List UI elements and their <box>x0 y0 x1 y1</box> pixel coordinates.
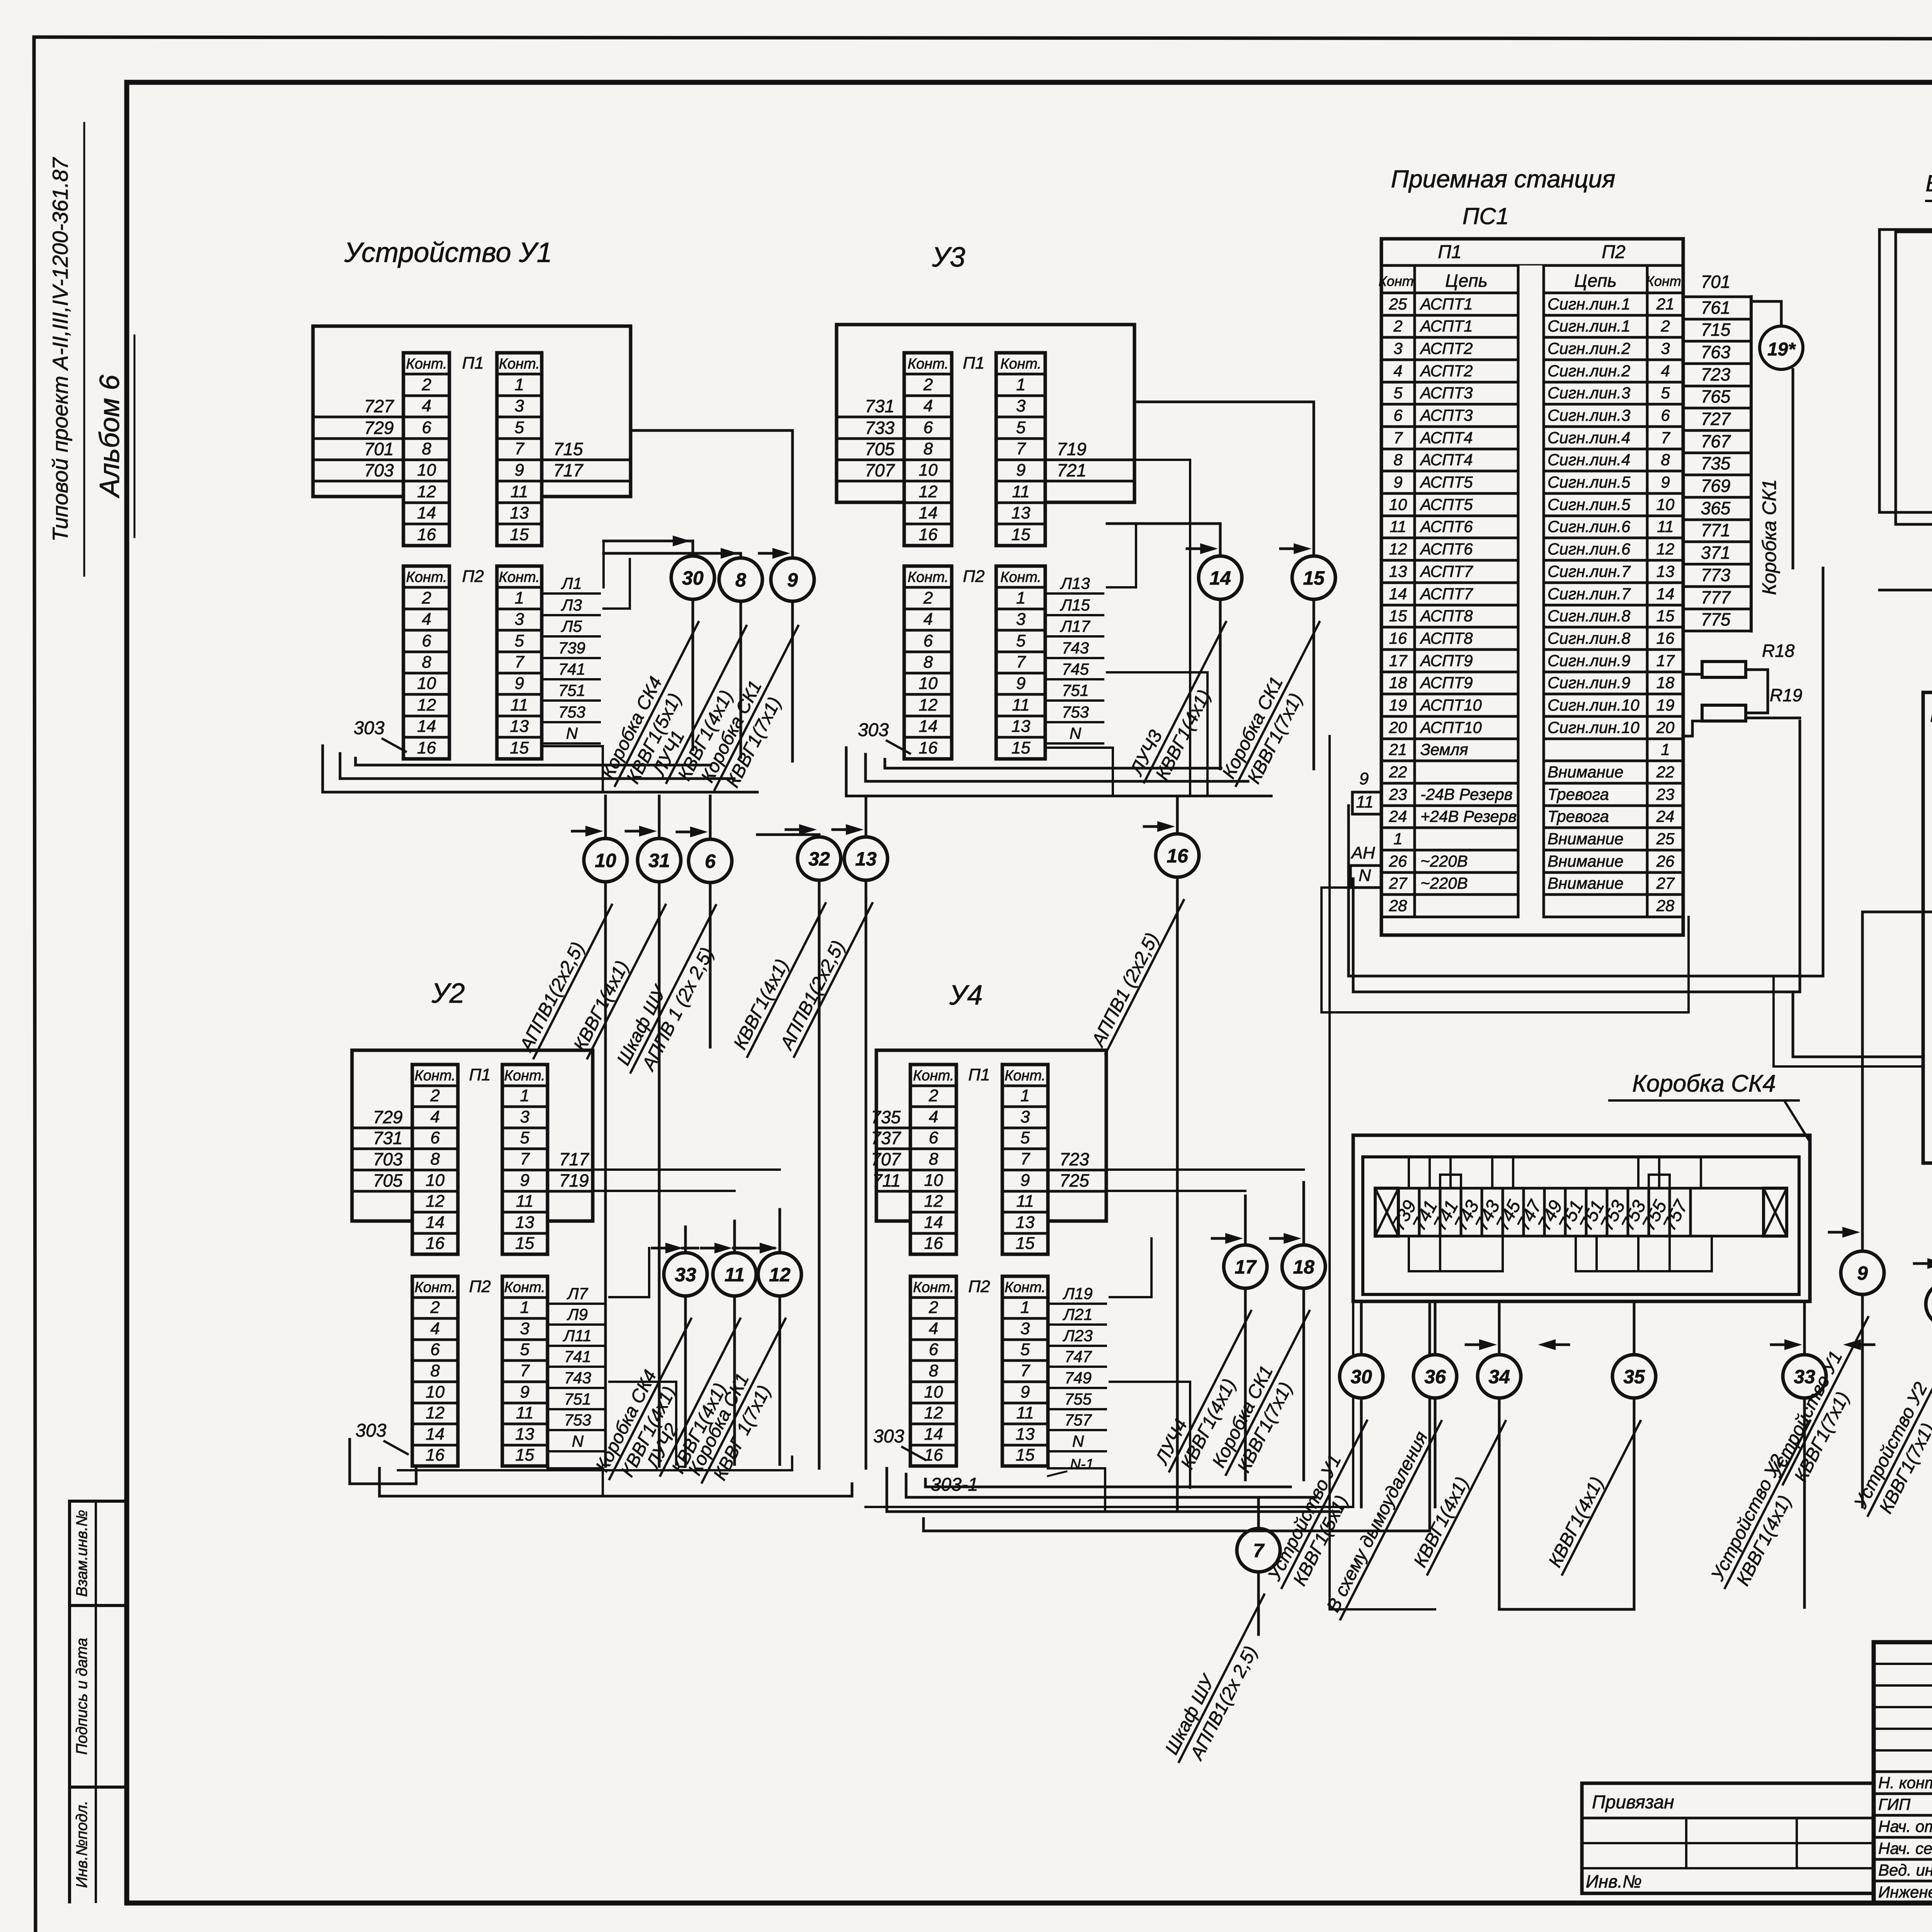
svg-text:9: 9 <box>787 569 798 591</box>
cable node 14 at U3 <box>1199 556 1242 599</box>
svg-text:6: 6 <box>923 418 933 437</box>
svg-text:14: 14 <box>924 1213 943 1232</box>
direction arrow at node 10 <box>572 830 592 833</box>
svg-text:Сигн.лин.3: Сигн.лин.3 <box>1548 406 1630 424</box>
svg-text:16: 16 <box>919 738 938 757</box>
svg-text:Инв.№: Инв.№ <box>1586 1871 1642 1891</box>
svg-text:5: 5 <box>515 418 524 437</box>
cable node 30 at U1 <box>671 556 714 599</box>
svg-text:Конт.: Конт. <box>908 356 949 372</box>
svg-text:6: 6 <box>430 1128 440 1147</box>
svg-text:АСПТ1: АСПТ1 <box>1419 295 1473 313</box>
svg-text:N: N <box>1359 866 1371 885</box>
wire long U3 to node 15 <box>1134 402 1314 769</box>
svg-text:1: 1 <box>1393 830 1402 848</box>
svg-text:371: 371 <box>1701 543 1731 563</box>
svg-text:731: 731 <box>373 1128 403 1148</box>
svg-text:4: 4 <box>1393 362 1402 380</box>
svg-text:751: 751 <box>558 681 585 699</box>
svg-text:8: 8 <box>735 569 746 591</box>
svg-text:~220В: ~220В <box>1420 852 1468 870</box>
svg-text:14: 14 <box>1656 585 1675 603</box>
svg-text:Конт.: Конт. <box>908 569 949 585</box>
svg-text:Конт.: Конт. <box>406 356 447 372</box>
resistor R18 <box>1702 662 1746 677</box>
wire cable run 13 <box>865 796 867 1468</box>
svg-text:7: 7 <box>520 1361 530 1380</box>
svg-text:6: 6 <box>929 1340 939 1359</box>
svg-text:12: 12 <box>417 482 436 501</box>
svg-text:14: 14 <box>1389 585 1407 603</box>
svg-text:Конт.: Конт. <box>406 569 447 585</box>
svg-text:Л23: Л23 <box>1062 1327 1093 1345</box>
wire bus left of SK1 upper <box>1862 911 1932 913</box>
svg-text:У3: У3 <box>932 242 965 273</box>
svg-text:7: 7 <box>1393 429 1403 447</box>
svg-text:Коробка СК4: Коробка СК4 <box>1632 1070 1776 1097</box>
wire U2 p2 stub links <box>609 1248 649 1297</box>
svg-text:П1: П1 <box>1438 242 1461 262</box>
svg-text:727: 727 <box>1701 409 1731 429</box>
svg-text:6: 6 <box>923 631 933 650</box>
svg-text:Л3: Л3 <box>561 596 582 614</box>
svg-text:Л11: Л11 <box>563 1327 592 1345</box>
svg-text:7: 7 <box>1020 1150 1031 1168</box>
svg-text:АСПТ4: АСПТ4 <box>1419 451 1473 469</box>
svg-text:5: 5 <box>1016 631 1026 650</box>
svg-text:АСПТ10: АСПТ10 <box>1419 718 1482 736</box>
cable node 34 at SK4 <box>1478 1355 1521 1398</box>
svg-text:3: 3 <box>515 396 524 415</box>
wire U3 p2 stub links <box>1107 524 1136 587</box>
svg-text:755: 755 <box>1065 1390 1092 1408</box>
svg-text:R19: R19 <box>1770 685 1802 705</box>
cable label Коробка СК4 at node 30 <box>596 612 719 796</box>
svg-text:1: 1 <box>1020 1086 1030 1105</box>
svg-text:Конт.: Конт. <box>415 1068 456 1084</box>
svg-text:9: 9 <box>1016 674 1026 693</box>
svg-text:19: 19 <box>1389 696 1407 714</box>
svg-text:Типовой проект А-II,III,IV-120: Типовой проект А-II,III,IV-1200-361.87 <box>48 157 72 542</box>
svg-text:Тревога: Тревога <box>1548 807 1609 825</box>
title block <box>1874 1642 1932 1905</box>
wire SK4 to node 34 <box>1498 1301 1501 1607</box>
svg-text:Сигн.лин.2: Сигн.лин.2 <box>1548 362 1630 380</box>
svg-text:Привязан: Привязан <box>1592 1792 1674 1813</box>
svg-text:Конт.: Конт. <box>1000 569 1041 585</box>
svg-text:АСПТ4: АСПТ4 <box>1419 429 1473 447</box>
svg-text:П2: П2 <box>968 1277 990 1296</box>
wire bus PS1 to SK1 <box>1793 992 1923 1057</box>
direction arrow at node 6 <box>677 831 696 833</box>
cable label Шкаф ШУ at node 7 <box>1160 1585 1285 1772</box>
svg-text:707: 707 <box>865 460 895 480</box>
svg-text:7: 7 <box>1016 439 1026 458</box>
svg-text:Конт.: Конт. <box>913 1068 954 1084</box>
svg-text:16: 16 <box>1656 629 1675 647</box>
wire to node 11 <box>733 1221 736 1464</box>
svg-text:19*: 19* <box>1767 339 1796 360</box>
svg-text:16: 16 <box>417 525 436 544</box>
svg-text:10: 10 <box>919 674 938 693</box>
svg-text:Сигн.лин.8: Сигн.лин.8 <box>1548 629 1631 647</box>
svg-text:13: 13 <box>515 1425 534 1444</box>
cable label at right node 9 <box>1764 1307 1889 1495</box>
svg-text:4: 4 <box>430 1319 440 1338</box>
svg-text:АСПТ6: АСПТ6 <box>1419 540 1473 558</box>
svg-text:17: 17 <box>1389 651 1408 670</box>
svg-text:5: 5 <box>1016 418 1026 437</box>
svg-text:Сигн.лин.5: Сигн.лин.5 <box>1548 495 1631 514</box>
cable label at SK4 node 33 <box>1706 1411 1831 1599</box>
svg-text:11: 11 <box>1016 1192 1034 1211</box>
svg-text:13: 13 <box>510 717 529 736</box>
svg-text:Л9: Л9 <box>566 1305 588 1323</box>
svg-text:11: 11 <box>1657 517 1674 536</box>
svg-text:П1: П1 <box>462 354 484 372</box>
svg-text:6: 6 <box>1393 406 1403 424</box>
svg-text:3: 3 <box>1020 1107 1030 1126</box>
svg-text:Устройство У1: Устройство У1 <box>344 237 552 268</box>
svg-text:3: 3 <box>520 1107 530 1126</box>
svg-text:15: 15 <box>1389 607 1407 625</box>
cable label ЛУЧ3 at node 14 <box>1125 612 1247 793</box>
svg-text:767: 767 <box>1701 431 1731 451</box>
svg-text:20: 20 <box>1656 718 1675 736</box>
svg-text:8: 8 <box>929 1361 939 1380</box>
svg-text:13: 13 <box>1016 1213 1035 1232</box>
svg-text:9: 9 <box>1393 473 1402 491</box>
wire R18-R19 loop <box>1683 673 1702 676</box>
wire PS1 26-27 to left <box>1321 888 1689 1012</box>
svg-text:717: 717 <box>553 460 583 480</box>
svg-text:У2: У2 <box>431 978 465 1009</box>
cable label at SK4 node 30 <box>1262 1411 1388 1599</box>
svg-text:Л21: Л21 <box>1062 1305 1093 1323</box>
wire long bus 303-1 <box>923 1301 1430 1531</box>
svg-text:Взам.инв.№: Взам.инв.№ <box>73 1510 90 1597</box>
svg-text:751: 751 <box>564 1390 591 1408</box>
wire to node 17 <box>1244 1196 1247 1480</box>
wire feeder to node 32 <box>757 833 819 836</box>
direction arrows at U3 nodes <box>1187 548 1206 550</box>
svg-text:16: 16 <box>924 1234 943 1253</box>
svg-text:N-1: N-1 <box>1070 1456 1094 1473</box>
svg-text:11: 11 <box>1356 793 1374 811</box>
cable label Коробка СК1 at node 15 <box>1217 612 1340 796</box>
svg-text:Тревога: Тревога <box>1548 785 1609 803</box>
wire cable run 16 <box>1176 796 1179 1512</box>
svg-text:Сигн.лин.10: Сигн.лин.10 <box>1548 696 1639 714</box>
svg-text:8: 8 <box>430 1150 440 1168</box>
wire SK4 to node 30 <box>1360 1301 1363 1507</box>
svg-text:12: 12 <box>1389 540 1407 558</box>
svg-text:Сигн.лин.3: Сигн.лин.3 <box>1548 384 1630 402</box>
direction arrow at node 34 <box>1466 1344 1485 1346</box>
svg-text:4: 4 <box>422 396 431 415</box>
svg-text:АСПТ5: АСПТ5 <box>1419 473 1473 491</box>
svg-text:П2: П2 <box>1602 242 1625 262</box>
svg-text:Конт.: Конт. <box>1005 1068 1046 1084</box>
svg-text:Конт.: Конт. <box>1005 1279 1046 1296</box>
svg-text:8: 8 <box>1393 451 1403 469</box>
svg-text:16: 16 <box>924 1446 943 1464</box>
svg-text:4: 4 <box>923 610 933 629</box>
dashed arrows above U2 nodes <box>657 1247 784 1250</box>
svg-text:739: 739 <box>558 639 585 657</box>
svg-text:725: 725 <box>1060 1170 1089 1190</box>
svg-text:Сигн.лин.6: Сигн.лин.6 <box>1548 540 1631 558</box>
resistor R19 <box>1702 705 1746 721</box>
svg-text:9: 9 <box>515 674 524 693</box>
svg-text:777: 777 <box>1701 587 1731 607</box>
wire PS1 to node 19* <box>1751 301 1781 326</box>
svg-text:Сигн.лин.7: Сигн.лин.7 <box>1548 585 1631 603</box>
svg-text:24: 24 <box>1389 807 1407 825</box>
wire staircase below U4 <box>887 1468 1339 1512</box>
svg-text:П1: П1 <box>963 354 985 372</box>
wire to node 30 at U1 <box>604 541 693 750</box>
svg-text:5: 5 <box>520 1128 530 1147</box>
svg-text:2: 2 <box>1393 317 1402 335</box>
svg-text:303: 303 <box>858 720 889 740</box>
cable node 31 <box>638 838 681 882</box>
svg-text:1: 1 <box>1016 375 1026 394</box>
svg-text:27: 27 <box>1389 874 1408 892</box>
svg-text:4: 4 <box>430 1107 440 1126</box>
cable label at right node 12 <box>1849 1338 1932 1526</box>
svg-text:13: 13 <box>515 1213 534 1232</box>
cable label Коробка СК1 at node 12 <box>683 1309 806 1493</box>
svg-text:13: 13 <box>1656 562 1675 580</box>
svg-text:Л13: Л13 <box>1060 574 1090 592</box>
svg-text:5: 5 <box>1020 1340 1030 1359</box>
svg-text:10: 10 <box>417 674 436 693</box>
svg-text:19: 19 <box>1656 696 1675 714</box>
svg-text:22: 22 <box>1389 763 1407 781</box>
svg-text:1: 1 <box>520 1298 529 1317</box>
svg-text:12: 12 <box>417 696 436 714</box>
svg-text:10: 10 <box>595 850 616 871</box>
cable label at node 16 <box>1086 890 1184 1054</box>
svg-text:34: 34 <box>1488 1366 1510 1388</box>
svg-text:Внимание: Внимание <box>1548 830 1623 848</box>
PS1 left stub АН <box>1350 864 1381 867</box>
svg-text:15: 15 <box>1016 1446 1035 1464</box>
svg-text:775: 775 <box>1701 609 1731 629</box>
svg-text:10: 10 <box>426 1171 445 1190</box>
svg-text:16: 16 <box>426 1234 445 1253</box>
cable label at node 10 <box>514 895 612 1058</box>
svg-text:25: 25 <box>1389 295 1407 313</box>
svg-text:9: 9 <box>1661 473 1670 491</box>
svg-text:303: 303 <box>354 718 384 738</box>
svg-text:33: 33 <box>675 1264 696 1286</box>
annex box Привязан <box>1582 1783 1874 1893</box>
svg-text:14: 14 <box>426 1213 445 1232</box>
svg-text:11: 11 <box>1016 1403 1034 1422</box>
svg-text:27: 27 <box>1656 874 1675 892</box>
receiving station PS1 table <box>1379 239 1685 935</box>
svg-text:773: 773 <box>1701 565 1731 585</box>
svg-text:2: 2 <box>929 1298 938 1317</box>
svg-text:Цепь: Цепь <box>1445 270 1488 291</box>
svg-text:7: 7 <box>1016 653 1026 672</box>
svg-text:719: 719 <box>559 1170 589 1190</box>
svg-text:Цепь: Цепь <box>1574 270 1617 291</box>
svg-text:12: 12 <box>924 1192 943 1211</box>
svg-text:Л17: Л17 <box>1060 617 1090 635</box>
svg-text:Конт.: Конт. <box>504 1279 545 1296</box>
svg-text:2: 2 <box>422 375 431 394</box>
svg-text:13: 13 <box>855 848 877 870</box>
svg-text:6: 6 <box>705 850 716 872</box>
svg-text:Л1: Л1 <box>561 574 582 592</box>
svg-text:743: 743 <box>564 1369 591 1387</box>
cable label ЛУЧ4 at node 17 <box>1150 1301 1272 1482</box>
svg-text:769: 769 <box>1701 476 1731 496</box>
svg-text:729: 729 <box>364 418 394 438</box>
direction arrow at node 32 <box>786 828 805 831</box>
svg-text:Л5: Л5 <box>561 617 582 635</box>
svg-text:3: 3 <box>515 610 524 629</box>
svg-text:21: 21 <box>1656 295 1675 313</box>
svg-text:1: 1 <box>1661 740 1670 759</box>
svg-text:3: 3 <box>520 1319 530 1338</box>
svg-text:Инженер: Инженер <box>1878 1883 1932 1901</box>
svg-text:Конт.: Конт. <box>913 1279 954 1296</box>
junction box SK4 (Коробка СК4) <box>1353 1135 1810 1301</box>
svg-text:Сигн.лин.4: Сигн.лин.4 <box>1548 429 1630 447</box>
svg-text:11: 11 <box>1012 482 1030 501</box>
svg-text:Конт.: Конт. <box>1379 273 1418 289</box>
direction arrows at U1 nodes <box>660 540 679 543</box>
svg-text:13: 13 <box>1016 1425 1035 1444</box>
svg-text:5: 5 <box>1393 384 1403 402</box>
svg-text:Выпрямитель В1: Выпрямитель В1 <box>1925 170 1932 196</box>
svg-text:35: 35 <box>1623 1366 1645 1388</box>
svg-text:6: 6 <box>422 418 432 437</box>
svg-text:Нач. сект: Нач. сект <box>1878 1839 1932 1857</box>
wire long U1 to node 9 <box>631 430 793 761</box>
svg-text:ГИП: ГИП <box>1878 1795 1911 1813</box>
svg-text:1: 1 <box>1020 1298 1030 1317</box>
svg-text:3: 3 <box>1020 1319 1030 1338</box>
svg-text:4: 4 <box>422 610 431 629</box>
cable label at SK4 node 34 <box>1408 1411 1505 1575</box>
wire U2 stub 719 right <box>593 1190 735 1192</box>
svg-text:Конт.: Конт. <box>499 356 540 372</box>
wire staircase below U1 <box>323 746 757 792</box>
svg-text:14: 14 <box>1209 567 1231 589</box>
svg-text:2: 2 <box>1660 317 1670 335</box>
svg-text:Сигн.лин.2: Сигн.лин.2 <box>1548 339 1630 357</box>
svg-text:747: 747 <box>1065 1347 1092 1366</box>
svg-text:11: 11 <box>1012 696 1030 714</box>
PS1 left stub 11 <box>1352 813 1381 816</box>
svg-text:N: N <box>1072 1432 1084 1450</box>
svg-text:707: 707 <box>871 1149 901 1169</box>
svg-text:5: 5 <box>1661 384 1670 402</box>
direction arrow at right node 12 <box>1914 1262 1932 1265</box>
svg-text:10: 10 <box>426 1383 445 1401</box>
svg-text:7: 7 <box>1661 429 1670 447</box>
svg-text:757: 757 <box>1065 1411 1092 1429</box>
svg-text:П1: П1 <box>968 1065 990 1084</box>
wire cable run 32 <box>818 835 821 1468</box>
direction arrow at right node 9 <box>1829 1231 1849 1234</box>
svg-text:733: 733 <box>865 418 895 438</box>
svg-text:АСПТ1: АСПТ1 <box>1419 317 1473 335</box>
cable label ЛУЧ2 at node 11 <box>641 1309 761 1486</box>
svg-text:26: 26 <box>1389 852 1407 870</box>
cable node 8 at U1 <box>719 558 762 601</box>
svg-text:723: 723 <box>1701 364 1731 384</box>
svg-text:П2: П2 <box>462 567 484 586</box>
cable node 11 at U2 <box>713 1253 756 1296</box>
svg-text:18: 18 <box>1656 673 1675 692</box>
svg-text:365: 365 <box>1701 498 1731 518</box>
svg-text:АСПТ7: АСПТ7 <box>1419 585 1473 603</box>
svg-text:Сигн.лин.1: Сигн.лин.1 <box>1548 317 1630 335</box>
svg-text:Конт.: Конт. <box>504 1068 545 1084</box>
svg-text:Приемная станция: Приемная станция <box>1391 165 1616 193</box>
svg-text:11: 11 <box>1389 517 1406 536</box>
wire bus PS1 down left <box>1349 568 1823 976</box>
wire SK4 to node 36 <box>1434 1301 1437 1507</box>
svg-text:303-1: 303-1 <box>931 1475 978 1495</box>
svg-text:П1: П1 <box>469 1065 491 1084</box>
svg-text:ПС1: ПС1 <box>1463 203 1509 229</box>
cable label at node 31 <box>568 895 665 1058</box>
wire to node 18 <box>1303 1182 1305 1480</box>
svg-text:753: 753 <box>1062 703 1089 721</box>
svg-text:717: 717 <box>559 1149 589 1169</box>
svg-text:АСПТ8: АСПТ8 <box>1419 629 1473 647</box>
svg-text:Сигн.лин.5: Сигн.лин.5 <box>1548 473 1631 491</box>
svg-text:741: 741 <box>564 1347 591 1366</box>
wire U4 stub 723 right <box>1106 1168 1304 1171</box>
svg-text:13: 13 <box>1012 717 1031 736</box>
svg-text:-24В Резерв: -24В Резерв <box>1420 785 1513 803</box>
PS1 right wire-number stubs <box>1683 272 1751 631</box>
svg-text:Конт.: Конт. <box>1000 356 1041 372</box>
device U1 (Устройство У1) <box>313 326 631 759</box>
svg-text:25: 25 <box>1656 830 1675 848</box>
svg-text:9: 9 <box>1359 769 1369 788</box>
direction arrow at node 31 <box>626 830 645 833</box>
svg-text:1: 1 <box>515 588 524 607</box>
svg-text:6: 6 <box>929 1128 939 1147</box>
wire SK1 to node 9 <box>1861 1101 1864 1507</box>
svg-text:9: 9 <box>1016 461 1026 480</box>
svg-text:22: 22 <box>1656 763 1675 781</box>
svg-text:2: 2 <box>923 588 933 607</box>
svg-text:1: 1 <box>520 1086 529 1105</box>
cable node 10 <box>584 838 627 882</box>
svg-text:АСПТ5: АСПТ5 <box>1419 495 1473 514</box>
svg-text:14: 14 <box>919 503 938 522</box>
wire to node 7 <box>1257 1499 1260 1634</box>
svg-text:701: 701 <box>364 439 394 459</box>
cable node 15 at U3 <box>1292 556 1335 599</box>
svg-text:14: 14 <box>924 1425 943 1444</box>
svg-text:12: 12 <box>426 1192 445 1211</box>
wire to node 33 <box>684 1227 687 1464</box>
cable node 17 at U4 <box>1224 1245 1267 1288</box>
svg-text:12: 12 <box>924 1403 943 1422</box>
wire staircase below U3 <box>846 748 1271 796</box>
